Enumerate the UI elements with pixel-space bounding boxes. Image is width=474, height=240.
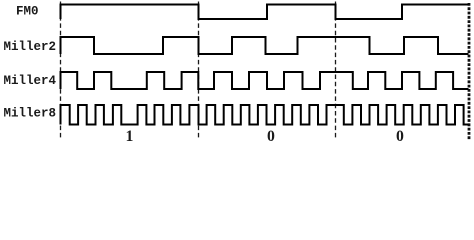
svg-text:Miller2: Miller2 [4,40,57,54]
svg-text:1: 1 [126,128,134,143]
svg-text:FM0: FM0 [16,5,39,19]
Miller2 waveform [61,37,469,54]
svg-text:0: 0 [396,128,404,143]
svg-text:Miller8: Miller8 [4,107,57,121]
dashed bit-boundary line at x=335.5 [335,2,337,140]
Miller8 waveform [61,105,469,125]
Miller4 waveform [61,72,469,89]
dashed bit-boundary line at x=198.5 [198,2,200,140]
svg-text:0: 0 [267,128,275,143]
FM0 waveform [61,5,469,20]
bold dashed end boundary line at x=469 [468,3,471,140]
svg-text:Miller4: Miller4 [4,74,57,88]
dashed bit-boundary line at x=60.5 [60,2,62,140]
